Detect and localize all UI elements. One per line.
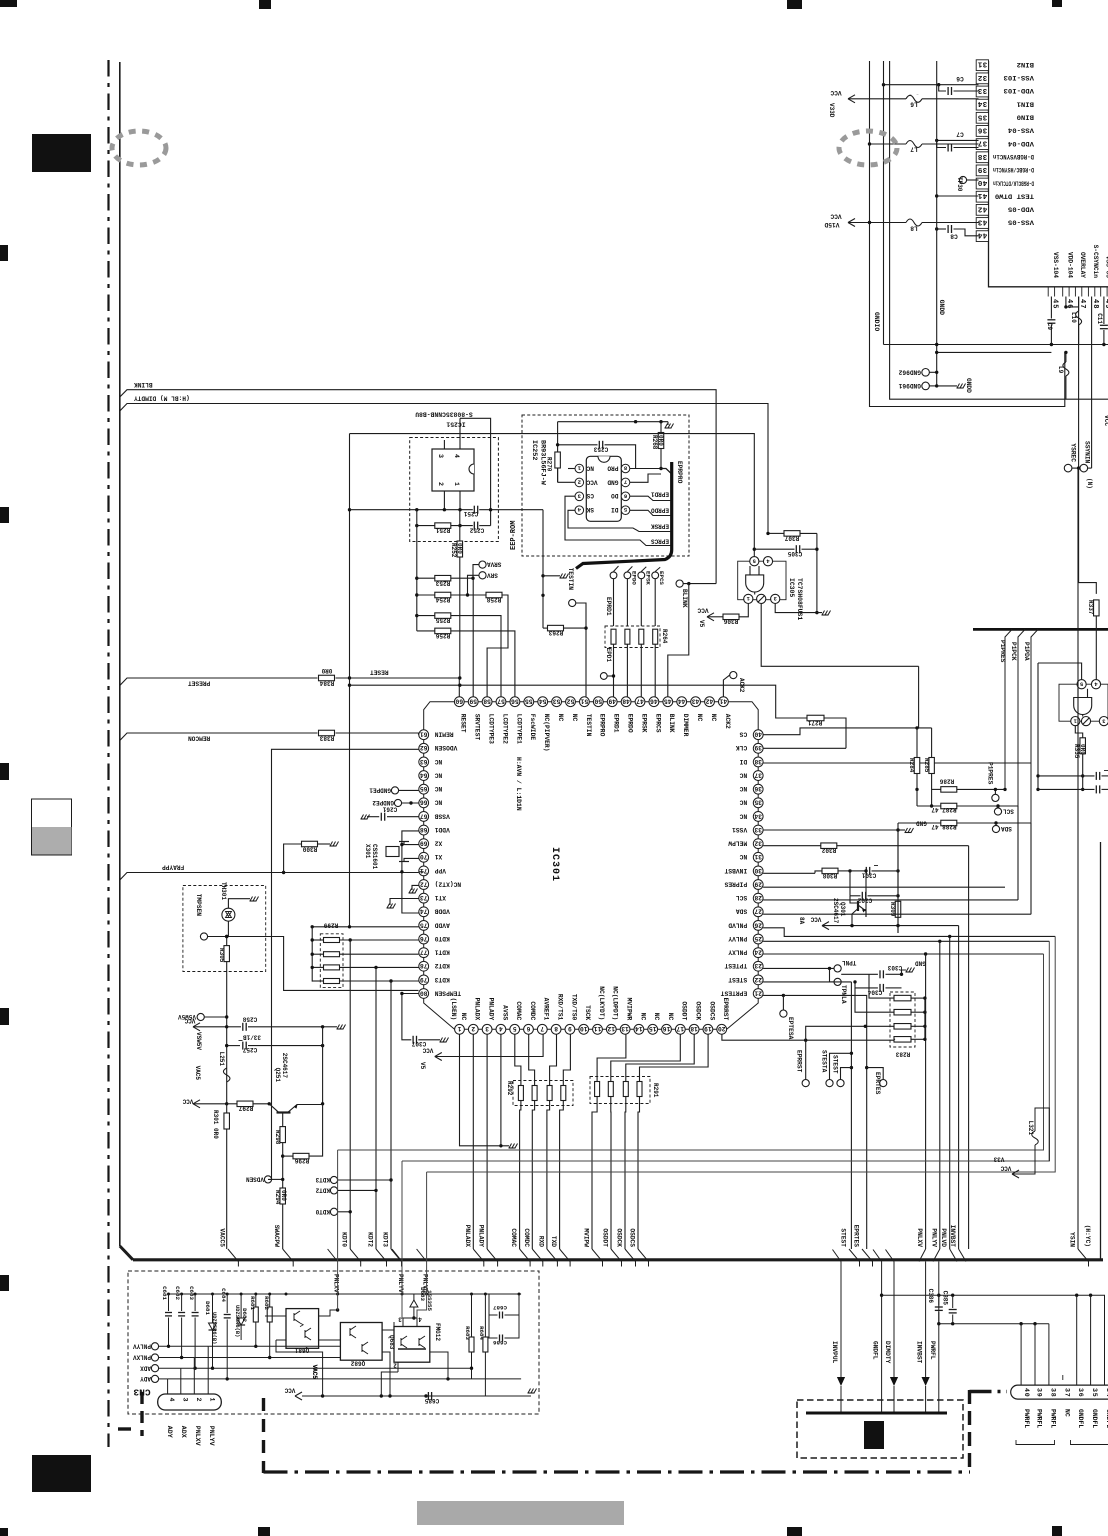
IC301 pin 31 NC: [753, 852, 763, 862]
svg-text:11: 11: [593, 1025, 601, 1032]
svg-text:(H:YC): (H:YC): [1084, 1225, 1091, 1247]
IC301 pin 20 EPRRST: [717, 1024, 727, 1034]
wire OSDCS to edge: [638, 1249, 649, 1267]
svg-text:RESET: RESET: [370, 669, 389, 676]
svg-text:37: 37: [1063, 1388, 1070, 1398]
wire KDT0 drop: [349, 940, 351, 1249]
resistor R254: [417, 594, 435, 596]
resistor R305: [227, 921, 229, 936]
resistor R287 47: [916, 789, 918, 806]
wire R299 common: [311, 927, 313, 982]
svg-text:12: 12: [607, 1025, 615, 1032]
bus tap P1PCK: [1018, 629, 1025, 900]
svg-text:EEP-ROM: EEP-ROM: [510, 521, 518, 550]
svg-text:3: 3: [774, 595, 777, 601]
svg-text:D683: D683: [419, 1287, 426, 1301]
heavy dash vertical right of LCD box: [968, 1390, 971, 1472]
resistor R684: [484, 1294, 486, 1337]
svg-text:VSS-05: VSS-05: [1104, 256, 1108, 279]
test point TP30: [959, 176, 966, 183]
svg-text:NC: NC: [639, 1013, 646, 1021]
pin 48 video IC: [1087, 287, 1089, 297]
capacitor C681: [168, 1294, 170, 1311]
svg-text:PNLADX: PNLADX: [474, 998, 481, 1021]
wire RXD to edge: [547, 1249, 558, 1267]
svg-text:NC: NC: [739, 771, 747, 778]
wire R307/C305 right vertical: [816, 533, 818, 612]
svg-text:4: 4: [418, 1316, 422, 1323]
svg-text:BIN0: BIN0: [1017, 114, 1034, 121]
IC301 pin 32 MELPW: [753, 839, 763, 849]
capacitor C8: [937, 228, 946, 230]
svg-text:C682: C682: [174, 1286, 181, 1300]
VCC arrow VAC5: [193, 1100, 200, 1104]
svg-text:KDT3: KDT3: [434, 976, 449, 983]
svg-text:VCC: VCC: [1103, 415, 1108, 426]
svg-text:KDT3: KDT3: [382, 1232, 389, 1247]
svg-text:72: 72: [420, 880, 428, 887]
IC301 pin 8 RXD/TS1: [551, 1024, 561, 1034]
ground R300: [318, 843, 331, 845]
svg-text:STEST: STEST: [840, 1228, 847, 1247]
wire gate pin5 feed: [897, 926, 899, 933]
svg-text:P1PRES: P1PRES: [987, 762, 994, 785]
svg-text:OVERLAY: OVERLAY: [1079, 252, 1086, 278]
bus tap P1PDA: [1031, 629, 1038, 914]
svg-text:EPRSK: EPRSK: [651, 523, 669, 530]
svg-text:7: 7: [540, 1025, 544, 1032]
pin 38 video IC: [976, 152, 988, 163]
wire connector pin40: [1020, 1324, 1022, 1385]
svg-text:C686: C686: [493, 1339, 507, 1346]
svg-text:R271: R271: [807, 719, 822, 726]
resistor R286: [932, 788, 941, 790]
svg-text:SRV: SRV: [487, 572, 498, 579]
svg-text:EPRCS: EPRCS: [654, 714, 661, 733]
pin 36 video IC: [976, 126, 988, 137]
svg-text:C305: C305: [787, 550, 802, 557]
resistor R292 element 2: [529, 1034, 535, 1085]
vertical rail GNDIO: [883, 61, 885, 345]
svg-text:30: 30: [754, 867, 762, 874]
svg-text:V15D: V15D: [824, 221, 839, 228]
test point VSW5V: [197, 1013, 204, 1020]
wire STEST to edge: [849, 1249, 860, 1267]
resistor R285: [929, 758, 935, 774]
test point STESTA: [830, 1053, 852, 1079]
wire IC252 SK pin4: [568, 510, 670, 531]
svg-text:PNLADY: PNLADY: [478, 1225, 485, 1248]
resistor R283 element 3: [894, 1024, 911, 1030]
IC251 pin 4: [459, 418, 461, 449]
resistor R264 element 1: [611, 629, 616, 644]
heavy dash below CN3: [262, 1398, 265, 1473]
pin 31 video IC: [976, 60, 988, 71]
test point SCL: [996, 804, 999, 807]
capacitor C303: [841, 973, 878, 975]
IC301 pin 29 PIPRES: [753, 880, 763, 890]
grey title bar bottom: [417, 1501, 624, 1525]
svg-text:23: 23: [754, 962, 762, 969]
test point EPRRST: [805, 1040, 807, 1079]
svg-text:RXD/TS1: RXD/TS1: [557, 994, 564, 1021]
IC301 pin 63 NC: [419, 757, 429, 767]
capacitor C7: [937, 140, 946, 147]
resistor array R283 dashed box: [890, 992, 915, 1047]
IC252 pin 5 DI: [621, 506, 630, 515]
wire x918.6 vertical: [918, 666, 920, 728]
wire through border: [392, 1249, 402, 1262]
svg-text:Q683: Q683: [388, 1335, 395, 1350]
IC301 chamfer bottom-left: [424, 993, 460, 1029]
svg-text:GNDPE2: GNDPE2: [372, 799, 394, 806]
wire BLINK to pin45: [668, 584, 689, 697]
wire KDT2 drop: [375, 967, 377, 1249]
svg-text:GNDD: GNDD: [938, 300, 945, 316]
svg-text:KDT1: KDT1: [434, 949, 449, 956]
svg-text:FscWIDE: FscWIDE: [529, 714, 536, 741]
IC301 pin 46 EPRCS: [649, 697, 659, 707]
wire P1PDA end: [1030, 823, 1032, 914]
capacitor C258: [227, 1026, 241, 1028]
IC301 pin 18 OSDCK: [689, 1024, 699, 1034]
wire pin41: [937, 195, 979, 197]
wire PNLADY to edge: [487, 1249, 498, 1267]
wire KDT3 drop: [390, 981, 392, 1249]
svg-text:43: 43: [692, 698, 700, 705]
svg-text:REMIN: REMIN: [434, 731, 453, 738]
svg-text:27: 27: [754, 908, 762, 915]
svg-text:43: 43: [977, 218, 987, 226]
IC301 chamfer top-right: [723, 702, 758, 735]
wire PNLXV border drop: [925, 954, 927, 1249]
junction KDT0: [349, 938, 352, 941]
resistor R292 element 3: [550, 1034, 557, 1085]
schematic border left: [119, 62, 121, 1246]
test point TMPSEN: [200, 933, 207, 940]
svg-text:TXD/TS0: TXD/TS0: [570, 994, 577, 1021]
svg-text:C261: C261: [382, 806, 397, 813]
svg-text:VCC: VCC: [810, 916, 821, 923]
svg-text:EPRRST: EPRRST: [722, 998, 729, 1021]
wire Q681 bottom: [276, 1340, 323, 1396]
svg-text:62: 62: [420, 744, 428, 751]
svg-text:R682: R682: [263, 1296, 270, 1310]
IC301 pin 61 REMIN: [419, 730, 429, 740]
svg-text:VCC: VCC: [182, 1098, 193, 1105]
test point EPTESA: [782, 995, 784, 1010]
svg-text:EPRDO: EPRDO: [651, 507, 669, 514]
svg-text:AVDD: AVDD: [434, 921, 449, 928]
test point BLINK: [676, 580, 683, 587]
IC301 pin 44 DIMMER: [677, 697, 687, 707]
wire VCC V15D rail: [848, 222, 979, 224]
svg-text:R296: R296: [294, 1157, 309, 1164]
resistor R264 element 4: [653, 629, 658, 644]
svg-text:TPTEST: TPTEST: [724, 962, 747, 969]
IC301 chamfer top-left: [424, 702, 460, 735]
IC301 pin 5 COMAC: [510, 1024, 520, 1034]
svg-text:17: 17: [676, 1025, 684, 1032]
svg-text:AVREF1: AVREF1: [543, 998, 550, 1021]
svg-text:NC: NC: [696, 714, 703, 722]
wire PRESET / RESET from border: [120, 678, 318, 686]
IC301 pin 55 FscWIDE: [524, 697, 534, 707]
svg-text:C251: C251: [463, 510, 478, 517]
wire PNLXV drop into Q681: [337, 1249, 339, 1310]
wire RESET to pin60: [336, 678, 460, 697]
wire Q683 right to R683: [430, 1352, 448, 1379]
svg-text:LCDTYPE2: LCDTYPE2: [501, 714, 508, 744]
svg-text:36: 36: [977, 125, 987, 133]
svg-text:NC: NC: [557, 714, 564, 722]
svg-text:6: 6: [526, 1025, 530, 1032]
svg-text:VSS-I03: VSS-I03: [1004, 74, 1034, 81]
svg-text:COMDC: COMDC: [523, 1228, 530, 1247]
svg-text:1: 1: [457, 1025, 461, 1032]
wire GNDD sub rail: [937, 351, 1052, 353]
svg-text:NC: NC: [739, 812, 747, 819]
svg-text:C257: C257: [242, 1046, 257, 1053]
transistor Q251 2SC4617: [277, 1111, 291, 1113]
CN3 pin risers: [167, 1379, 169, 1394]
capacitor C341: [1038, 775, 1095, 777]
svg-text:YSREC: YSREC: [1070, 443, 1077, 462]
IC301 pin 7 AVREF1: [537, 1024, 547, 1034]
test point GNDPE2: [394, 799, 401, 806]
ground EEPROM: [667, 422, 669, 425]
resistor array R264 dashed box: [605, 626, 660, 648]
wire PNLVD into CN3: [426, 1172, 428, 1249]
heavy chain line bottom: [264, 1470, 971, 1473]
svg-text:73: 73: [420, 894, 428, 901]
svg-text:STESTA: STESTA: [821, 1050, 828, 1073]
capacitor C301: [850, 870, 865, 872]
svg-text:D-RGBVSYNCin: D-RGBVSYNCin: [993, 153, 1034, 160]
inductor L9: [1065, 352, 1067, 362]
IC301 pin 76 KDT0: [419, 934, 429, 944]
svg-text:39: 39: [1036, 1388, 1043, 1398]
test point ADX: [151, 1365, 158, 1372]
svg-text:VCC: VCC: [184, 1017, 195, 1024]
IC301 pin 72 NC(XT2): [419, 880, 429, 890]
wire PNL feed right 3: [427, 936, 1056, 1172]
svg-text:71: 71: [420, 867, 428, 874]
IC251 pin 1: [459, 491, 461, 510]
IC301 pin 19 OSDCS: [703, 1024, 713, 1034]
svg-text:VDD-I03: VDD-I03: [1004, 87, 1034, 94]
VCC arrow 8A: [822, 922, 829, 926]
wire PNLADY pin3: [486, 1034, 488, 1249]
svg-text:56: 56: [511, 698, 519, 705]
resistor R383: [319, 730, 335, 736]
test point YSREC: [1064, 464, 1072, 472]
test point PNLXV: [151, 1354, 158, 1361]
wire R283-4: [894, 1038, 895, 1040]
wire PIPRES pin29: [763, 886, 1005, 888]
IC301 pin 78 KDT2: [419, 961, 429, 971]
svg-text:25: 25: [754, 935, 762, 942]
registration mark left y507: [0, 507, 9, 523]
svg-text:VPP: VPP: [434, 867, 446, 874]
wire PNLADX pin2: [472, 1034, 474, 1249]
test point SRV: [479, 572, 486, 579]
svg-text:KDT2: KDT2: [434, 962, 449, 969]
IC301 pin 58 LCDTYPE3: [482, 697, 492, 707]
IC334 pin 4: [1091, 680, 1100, 689]
svg-text:C11: C11: [1096, 313, 1103, 324]
capacitor C342: [1038, 788, 1095, 790]
svg-text:78: 78: [420, 962, 428, 969]
svg-text:R287 47: R287 47: [931, 806, 957, 813]
svg-text:R306: R306: [723, 618, 738, 625]
svg-text:Q251: Q251: [274, 1068, 281, 1083]
svg-text:V5: V5: [419, 1062, 426, 1070]
resistor R258: [486, 592, 502, 598]
capacitor C257 33/1B: [227, 1045, 240, 1047]
wire MVIPW to edge: [592, 1249, 603, 1267]
AND gate IC305: [746, 575, 764, 592]
svg-text:19: 19: [704, 1025, 712, 1032]
resistor R253: [417, 577, 435, 579]
wire CS pin40: [763, 728, 932, 735]
wire through border: [328, 1249, 338, 1262]
svg-text:NC: NC: [739, 799, 747, 806]
IC301 pin 47 EPRSK: [635, 697, 645, 707]
IC305 pin 4: [763, 557, 772, 566]
resistor R301 0R0: [226, 1104, 228, 1113]
resistor R683: [471, 1294, 473, 1337]
capacitor C683: [194, 1294, 196, 1311]
svg-text:PIPRES: PIPRES: [724, 880, 747, 887]
IC301 pin 74 VDDB: [419, 907, 429, 917]
svg-text:79: 79: [420, 976, 428, 983]
IC301 outline: [459, 701, 723, 703]
svg-text:66: 66: [420, 799, 428, 806]
wire DI pin38: [763, 762, 1031, 764]
Q683 pin 2: [397, 1362, 399, 1372]
svg-text:R294: R294: [274, 1190, 281, 1205]
IC301 pin 37 NC: [753, 771, 763, 781]
pin 49 video IC: [1100, 287, 1102, 297]
wire IC305 pin3 to ground: [775, 604, 822, 613]
LCD module black block: [864, 1421, 884, 1449]
resistor R251: [435, 523, 451, 529]
pin 44 video IC: [976, 231, 988, 242]
IC301 pin 16 NC: [662, 1024, 672, 1034]
svg-text:NC: NC: [434, 758, 442, 765]
IC301 pin 26 PNLVD: [753, 920, 763, 930]
svg-text:8: 8: [554, 1025, 558, 1032]
svg-text:P1PRES: P1PRES: [999, 640, 1006, 663]
schematic border bottom: [133, 1258, 1103, 1261]
svg-text:PNLXY: PNLXY: [728, 949, 747, 956]
resistor R300: [284, 844, 301, 873]
junction KDT2: [374, 966, 377, 969]
IC301 pin 65 NC: [419, 784, 429, 794]
wire REMCON to pin61: [336, 733, 419, 735]
svg-text:4: 4: [499, 1025, 503, 1032]
wire pin1 ground: [460, 1034, 501, 1146]
svg-text:41: 41: [719, 698, 727, 705]
pin 46 video IC: [1062, 287, 1064, 297]
svg-text:NC: NC: [460, 1013, 467, 1021]
VCC arrow V33: [1012, 1170, 1019, 1174]
wire ADY row: [168, 1378, 521, 1380]
svg-text:R299: R299: [323, 922, 338, 929]
svg-text:ACK2: ACK2: [738, 678, 745, 693]
svg-text:C684: C684: [220, 1288, 227, 1302]
svg-text:1: 1: [453, 482, 460, 486]
IC301 pin 10 TSCK: [579, 1024, 589, 1034]
ground AVSS: [509, 1147, 516, 1149]
svg-text:(N): (N): [1086, 478, 1093, 489]
svg-text:2: 2: [437, 482, 444, 486]
IC video left edge: [989, 61, 1108, 287]
svg-text:69: 69: [420, 840, 428, 847]
wire BLINK from border: [120, 390, 716, 584]
svg-text:C685: C685: [424, 1397, 439, 1404]
svg-text:VSS-05: VSS-05: [1008, 219, 1034, 226]
svg-text:33: 33: [754, 826, 762, 833]
svg-text:32: 32: [754, 840, 762, 847]
wire EPR verticals to R264: [613, 579, 615, 626]
svg-text:X2: X2: [434, 840, 442, 847]
svg-text:8A: 8A: [798, 917, 805, 925]
svg-text:VCC: VCC: [1000, 1165, 1011, 1172]
svg-text:H:AVN / L:1D1N: H:AVN / L:1D1N: [515, 757, 522, 811]
svg-text:SCL: SCL: [736, 894, 748, 901]
svg-text:76: 76: [420, 935, 428, 942]
IC301 pin 45 BLINK: [663, 697, 673, 707]
wire pin48 SSYNIN drop: [1091, 297, 1093, 469]
IC305 pin 3: [771, 594, 780, 603]
svg-text:R298: R298: [274, 1130, 281, 1145]
svg-text:NC(PIPVER): NC(PIPVER): [543, 714, 550, 752]
wire y685 long: [350, 685, 776, 715]
svg-text:1: 1: [209, 1398, 216, 1402]
svg-text:C301: C301: [861, 872, 876, 879]
IC301 pin 59 SRVTEST: [468, 697, 478, 707]
svg-text:R284: R284: [908, 758, 915, 773]
registration mark top-left: [0, 0, 17, 7]
svg-text:INVBST: INVBST: [724, 867, 747, 874]
svg-text:D681: D681: [204, 1301, 211, 1315]
svg-text:R383: R383: [319, 735, 334, 742]
svg-text:35: 35: [1091, 1388, 1098, 1398]
svg-text:EPD1: EPD1: [605, 648, 612, 663]
transistor pair Q683 FMG12: [394, 1327, 430, 1363]
resistor R309: [895, 901, 901, 917]
svg-text:65: 65: [420, 785, 428, 792]
IC334 pin 2: [1081, 717, 1090, 726]
svg-text:PNLXV: PNLXV: [333, 1274, 340, 1293]
wire AVDD long: [312, 926, 418, 928]
svg-text:RESET: RESET: [460, 714, 467, 733]
wire R283-2 to TPNLA: [855, 988, 894, 1012]
svg-text:UDZS5R6(B): UDZS5R6(B): [211, 1312, 217, 1344]
wire x898 vertical: [897, 830, 899, 926]
IC301 pin 23 TPTEST: [753, 961, 763, 971]
capacitor C252: [473, 522, 475, 530]
svg-text:NC: NC: [739, 785, 747, 792]
svg-text:VCC: VCC: [422, 1047, 433, 1054]
svg-text:36: 36: [754, 785, 762, 792]
bus tap P1PRES: [1005, 629, 1012, 789]
IC301 pin 39 CLK: [753, 743, 763, 753]
svg-text:10: 10: [580, 1025, 588, 1032]
svg-text:50: 50: [594, 698, 602, 705]
